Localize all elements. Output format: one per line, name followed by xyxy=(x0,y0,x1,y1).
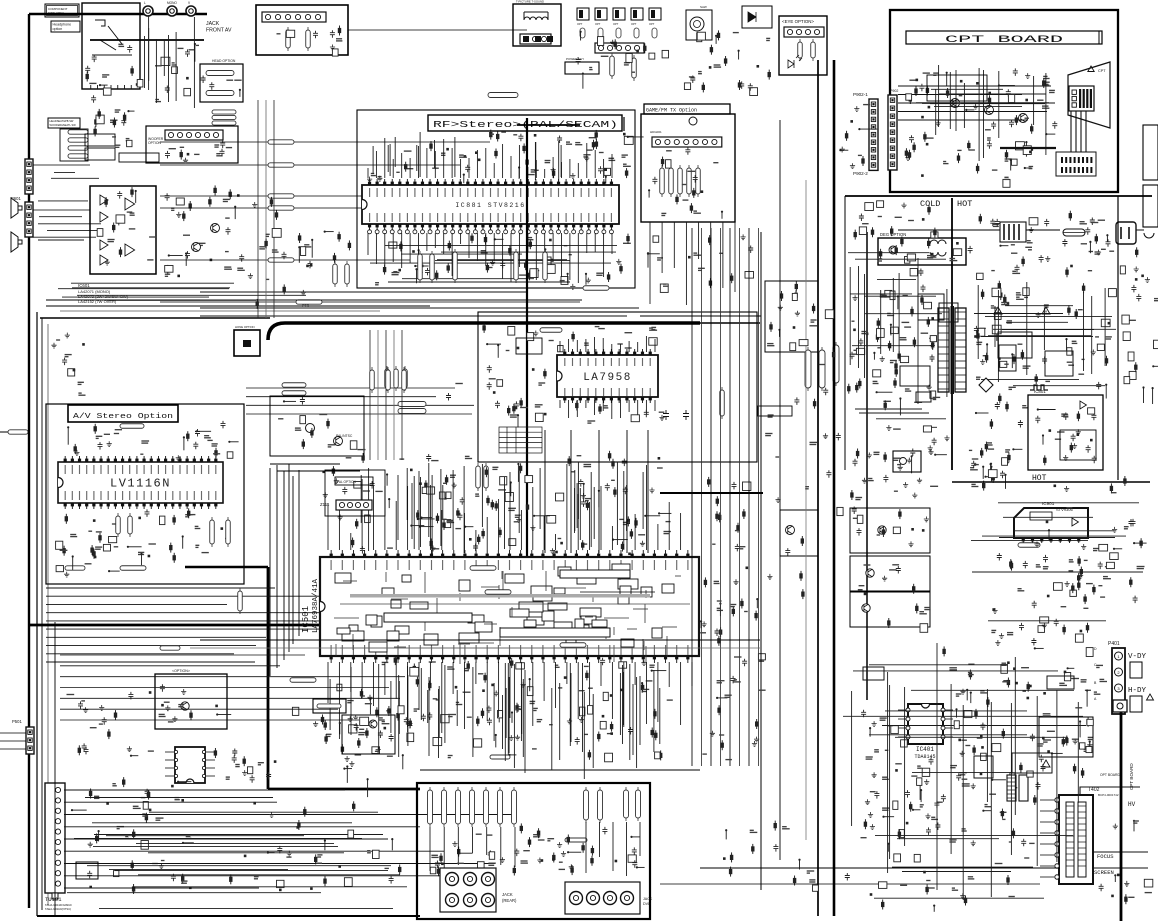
wire p501 a xyxy=(0,732,26,734)
svg-text:L: L xyxy=(144,1,146,5)
transistor mute xyxy=(369,720,377,728)
wire main vertical bus xyxy=(526,118,528,645)
resistor signal 5 xyxy=(268,258,294,262)
PAL NTSC box xyxy=(270,396,364,456)
photodiode eye xyxy=(788,55,802,68)
centre rail strip parts xyxy=(836,433,841,441)
resistor key 2 xyxy=(485,590,511,595)
headphone jack pins xyxy=(90,85,92,89)
audio option label box xyxy=(48,118,80,128)
IC801 sub box xyxy=(1060,430,1096,460)
resistor R372 xyxy=(370,370,375,390)
resistor jack b2 xyxy=(598,790,603,820)
IC881 lower cross wires xyxy=(402,278,534,280)
wire bottom right long xyxy=(700,867,1060,869)
wire mid bus right xyxy=(700,322,760,324)
wire to main xyxy=(348,29,527,31)
wire cross 1 xyxy=(640,315,761,317)
LV1116N top pins xyxy=(64,456,66,462)
relay box xyxy=(1143,185,1158,227)
right edge parts xyxy=(1129,319,1136,321)
primary wires xyxy=(864,295,936,297)
IC881 top components xyxy=(463,175,465,184)
svg-text:OPT BOARD: OPT BOARD xyxy=(1100,773,1120,777)
wire av 3 xyxy=(273,100,275,318)
wire rail gray xyxy=(805,180,807,840)
op-amp IC601c xyxy=(100,240,108,250)
component side label box xyxy=(45,4,79,17)
svg-text:OPT: OPT xyxy=(595,22,601,26)
resistor xyxy=(68,146,88,150)
connector P902 cpt xyxy=(888,95,897,170)
cpt drive wires xyxy=(931,88,1003,90)
v-hold box xyxy=(850,556,930,591)
svg-text:GAME/FM TX Option: GAME/FM TX Option xyxy=(646,108,697,114)
mute circuit box xyxy=(342,715,395,754)
IC501 bottom components xyxy=(509,735,514,740)
wire crt socket drops xyxy=(1070,111,1072,152)
transistor Q602 xyxy=(192,243,201,252)
speaker SP601 xyxy=(11,198,22,218)
IC881 bottom pin wires xyxy=(367,233,369,255)
LA7958 left parts xyxy=(532,368,535,371)
LV1116N bottom pin labels xyxy=(64,491,66,500)
svg-text:HOT: HOT xyxy=(957,199,972,209)
bottom left parts xyxy=(108,729,110,739)
connector block P101 xyxy=(256,5,348,55)
resistor R304 xyxy=(394,369,399,388)
IC401 pins xyxy=(906,708,910,712)
resistor signal 1 xyxy=(268,140,294,144)
headphone jack switch xyxy=(92,20,132,55)
wire CRT board drop xyxy=(1120,712,1123,921)
wire av 2 xyxy=(265,100,267,318)
wire left vertical bus xyxy=(28,14,30,908)
LA7958 bottom pin stubs xyxy=(559,400,561,408)
secondary vwires xyxy=(1043,308,1045,350)
feedback parts xyxy=(976,412,989,414)
IC501 internal bus xyxy=(350,594,650,598)
diode D101 xyxy=(748,12,756,22)
wire ic501 left bundle 3 xyxy=(283,471,285,660)
EW correction parts xyxy=(1087,719,1093,725)
wire bus elbow xyxy=(185,566,268,568)
wire p501 c xyxy=(0,748,26,750)
svg-text:SCREEN: SCREEN xyxy=(1094,869,1114,876)
wire long 770 xyxy=(420,769,700,771)
wire bundle centre 2 xyxy=(701,228,703,766)
wire cross 3 xyxy=(580,591,655,593)
h-out parts xyxy=(956,773,961,781)
Z111 option box xyxy=(325,470,385,516)
resistor signal 6 xyxy=(296,300,322,304)
svg-text:H-DY: H-DY xyxy=(1128,687,1147,695)
RF stereo section box xyxy=(357,110,635,288)
right of RF parts xyxy=(653,236,659,242)
wire ic501 left bundle 1 xyxy=(269,468,271,676)
resistor R807 xyxy=(632,58,637,78)
IC601 internals xyxy=(113,223,115,233)
switch box xyxy=(85,134,115,146)
connector eye xyxy=(784,27,824,37)
wire ic501 left bundle 2 xyxy=(276,465,278,668)
svg-text:BCP4-0001742: BCP4-0001742 xyxy=(1098,793,1119,797)
switch box 2 xyxy=(85,148,115,160)
transistor video amp R xyxy=(951,99,960,108)
resistor R302 xyxy=(282,391,306,396)
svg-text:WOOFER&SEATL SW: WOOFER&SEATL SW xyxy=(50,123,77,127)
IC801 parts xyxy=(1063,413,1068,421)
wire rail A xyxy=(760,232,762,890)
jack feed wires xyxy=(592,694,594,768)
resistor R301 xyxy=(282,383,306,388)
wire bundle centre 8 xyxy=(758,228,760,766)
CPT BOARD outer box xyxy=(890,10,1118,192)
ceramic filter CF881 xyxy=(689,117,697,125)
svg-text:IC901: IC901 xyxy=(1042,501,1055,506)
op-amp IC901 STV9306 block xyxy=(1014,508,1088,538)
power top parts xyxy=(872,227,874,237)
op-amp LA7958 xyxy=(557,355,658,397)
warning triangle psu2 xyxy=(994,307,1002,314)
east parts xyxy=(1072,583,1074,593)
fuse F801 xyxy=(1063,229,1085,236)
LV1116N top parts xyxy=(96,435,103,437)
connector game xyxy=(652,137,722,147)
resistor R806 xyxy=(610,56,615,76)
east wires xyxy=(971,540,1088,542)
op-amp IC881 STV8216 xyxy=(362,185,619,224)
AV stereo label box xyxy=(68,405,178,422)
IC881 top pin labels xyxy=(369,188,371,197)
IC501 top pin wires xyxy=(504,477,506,549)
resistor stereo out xyxy=(120,566,146,571)
wire long 648 gray xyxy=(190,647,760,649)
resistor V out 2 xyxy=(398,409,426,414)
svg-text:LA76938A/41A: LA76938A/41A xyxy=(312,578,320,633)
pad xyxy=(523,36,529,42)
svg-text:TDA8145: TDA8145 xyxy=(914,754,935,760)
svg-text:P902: P902 xyxy=(890,89,898,93)
RCA jack grid rear xyxy=(440,868,496,912)
resistor out audio xyxy=(317,704,341,708)
svg-text:(REAR): (REAR) xyxy=(502,898,517,903)
game option parts xyxy=(721,212,723,219)
mid-right strip parts xyxy=(743,482,751,491)
wire chroma 5 xyxy=(401,330,403,460)
resistor option 1 xyxy=(580,28,585,38)
op-amp IC601 block xyxy=(90,186,156,274)
transistor Q902 xyxy=(866,569,874,577)
connector cpt top xyxy=(1113,700,1127,712)
audio right parts xyxy=(325,231,334,233)
wire fan left-mid xyxy=(46,587,275,589)
amp box 1 xyxy=(850,508,930,553)
wire fan bottom left xyxy=(60,654,305,656)
resistor game 5 xyxy=(696,168,701,194)
IC401 right parts xyxy=(1002,729,1004,739)
wire power left rail xyxy=(844,196,846,470)
bottom-right v wires xyxy=(950,684,952,854)
h-out snubber parts xyxy=(949,839,956,841)
wire jack ground bus xyxy=(90,39,204,41)
CRT socket xyxy=(1069,86,1094,111)
svg-text:PTR: PTR xyxy=(302,304,310,308)
IC501 internal function blocks xyxy=(459,580,470,591)
resistor signal 2 xyxy=(268,163,294,167)
headphone drive parts xyxy=(94,126,96,136)
capacitor C445 xyxy=(683,410,689,420)
connector heater grid xyxy=(1056,152,1096,176)
wire bundle centre 1 xyxy=(691,228,693,766)
wire audio signal 5 xyxy=(160,259,410,261)
resistor AUDIO out xyxy=(488,93,518,98)
resistor jack c2 xyxy=(636,790,641,818)
wire bundle top b xyxy=(277,470,360,472)
wire bottom-left rail xyxy=(54,622,56,916)
stereo left parts xyxy=(88,530,92,532)
HEAD OPTION box xyxy=(200,64,243,102)
wire bundle centre 4 xyxy=(720,228,722,766)
wire vert la7958-5 xyxy=(647,430,649,553)
T402 pins xyxy=(1055,798,1059,802)
resistor R885 xyxy=(543,252,548,280)
posistor box xyxy=(1143,125,1158,180)
cpt board lower parts xyxy=(943,161,946,163)
svg-text:P902-2: P902-2 xyxy=(853,171,868,176)
svg-text:OPT: OPT xyxy=(649,22,655,26)
resistor jack 6 xyxy=(498,790,503,824)
resistor option 5 xyxy=(652,28,657,38)
AV stereo option outer box xyxy=(46,404,244,584)
connector P902-1 xyxy=(869,99,878,170)
connector Z111 xyxy=(336,500,372,510)
wire rail D xyxy=(833,60,836,916)
EYE OPTION box xyxy=(779,16,827,75)
transistor Q901 xyxy=(878,526,886,534)
IF input parts xyxy=(766,37,770,39)
IC501 top pin stubs xyxy=(327,503,329,550)
below IC501 parts left xyxy=(339,723,341,734)
LA7958 top pin labels xyxy=(564,358,566,366)
connector P101 pins xyxy=(262,12,326,22)
jack wires left xyxy=(429,827,431,871)
EEPROM IC01 xyxy=(175,747,205,783)
photocoupler LED xyxy=(900,458,907,465)
op-amp error amp xyxy=(1080,401,1086,409)
wire ic501 left bundle 6 xyxy=(298,470,300,636)
CPT BOARD title box xyxy=(906,31,1102,44)
secondary sub boxes xyxy=(999,345,1016,371)
option box parts xyxy=(178,704,183,706)
table sync modes xyxy=(499,427,542,453)
wire left rail 2 xyxy=(41,318,43,910)
secondary wires xyxy=(988,335,1091,337)
wire cold hot divider xyxy=(951,198,953,470)
xtal box X01 xyxy=(76,862,98,879)
wire bundle top a xyxy=(270,463,340,465)
wire cpt gnd xyxy=(898,229,1060,231)
connector P601 lower xyxy=(25,202,33,237)
wire audio gnd gray xyxy=(60,310,380,312)
transistor Q301 xyxy=(334,437,343,446)
svg-text:HEAD OPTION: HEAD OPTION xyxy=(212,59,236,63)
mid small parts xyxy=(310,264,313,267)
wire thick audio bus xyxy=(268,323,700,340)
resistor R901 xyxy=(1018,543,1040,548)
LA7958 top parts xyxy=(483,323,485,333)
svg-text:HEADSEAT&PB SW: HEADSEAT&PB SW xyxy=(50,119,74,123)
option jumper box 1 xyxy=(577,8,589,20)
resistor jack 5 xyxy=(484,790,489,824)
IC501 bottom pin wires xyxy=(438,689,440,758)
P902 wire labels xyxy=(858,154,862,156)
wire bundle centre 5 xyxy=(729,228,731,766)
op-amp IC601d xyxy=(100,255,108,265)
IC881 bottom pin labels xyxy=(369,213,371,222)
POWER KEY box xyxy=(565,62,599,74)
connector P806 xyxy=(595,43,644,53)
svg-text:LV1116N: LV1116N xyxy=(110,477,171,491)
connector P501 xyxy=(26,727,34,754)
wire vert la7958-1 xyxy=(544,430,546,553)
IC501 top components xyxy=(516,517,521,522)
svg-text:<EYE OPTION>: <EYE OPTION> xyxy=(782,19,814,24)
svg-text:A/V Stereo Option: A/V Stereo Option xyxy=(73,413,173,421)
CRT electron gun xyxy=(1068,62,1110,128)
resistor signal 3 xyxy=(268,194,294,198)
resistor game 1 xyxy=(660,168,665,194)
capacitor C444 xyxy=(663,410,669,420)
LA7958 top pins xyxy=(564,349,566,355)
line filter LF801 xyxy=(1000,222,1026,242)
resistor jack 3 xyxy=(456,790,461,824)
audio bus wires xyxy=(107,299,256,301)
mute block box xyxy=(119,153,159,162)
bottom centre-left parts xyxy=(244,855,247,858)
resistor fusible 2 xyxy=(819,350,825,388)
IC02 parts xyxy=(795,311,800,316)
h-drive parts xyxy=(1043,739,1051,741)
transistor degauss xyxy=(889,246,897,254)
speaker SP602 xyxy=(11,232,22,252)
svg-text:V-DY: V-DY xyxy=(1128,653,1147,661)
IC501 bottom pins xyxy=(330,656,332,663)
resistor on wire xyxy=(160,646,180,650)
svg-text:IC401: IC401 xyxy=(916,746,934,753)
bottom-right sub boxes xyxy=(1012,753,1052,773)
resistor R883 xyxy=(453,252,458,280)
woofer option parts xyxy=(165,151,170,159)
svg-text:TAEA-G011D(NTSC): TAEA-G011D(NTSC) xyxy=(45,907,71,911)
resistor key 4 xyxy=(290,678,316,683)
GAME FM TX option box xyxy=(641,114,735,222)
resistor R305 xyxy=(403,369,408,388)
sound trap box xyxy=(686,10,712,40)
LA7958 top pin stubs xyxy=(559,341,561,352)
LA7958 bottom pin labels xyxy=(564,388,566,396)
vertical out parts xyxy=(1063,625,1065,635)
wire chroma 4 xyxy=(393,330,395,460)
wire audio bus lower thick xyxy=(29,567,430,789)
wire fan stereo to V xyxy=(246,387,455,389)
transformer T401 drive xyxy=(1007,775,1016,801)
deg option parts xyxy=(953,249,961,256)
transistor video amp G xyxy=(985,106,994,115)
svg-text:TU101: TU101 xyxy=(45,896,62,903)
svg-text:option: option xyxy=(53,27,63,31)
svg-text:PAL/NTSC: PAL/NTSC xyxy=(336,434,353,438)
transformer T101 box xyxy=(513,4,561,46)
resistor key 3 xyxy=(560,643,586,648)
wire HV xyxy=(1080,787,1140,795)
svg-text:LA7958: LA7958 xyxy=(583,372,632,384)
PAL OPTION label box xyxy=(335,477,373,485)
P101 parts xyxy=(330,45,335,50)
wire rail B xyxy=(779,120,781,860)
resistor R443 xyxy=(476,466,481,488)
primary sub boxes xyxy=(916,392,931,402)
resistor R884 xyxy=(514,252,519,280)
resistor R303 xyxy=(385,369,390,388)
resistor R374 xyxy=(402,370,407,390)
svg-text:CPT BOARD: CPT BOARD xyxy=(945,35,1063,46)
AC inlet plug xyxy=(1116,222,1136,244)
wire left rail 3 xyxy=(47,324,49,905)
AC input parts xyxy=(1044,219,1049,227)
head option parts xyxy=(209,82,214,90)
V-DY coil box xyxy=(1130,662,1142,678)
cpt bias box xyxy=(927,75,987,101)
svg-text:IC881 STV8216: IC881 STV8216 xyxy=(455,202,525,209)
LV1116N bottom parts xyxy=(138,551,144,553)
resistor game 3 xyxy=(678,168,683,194)
wire audio signal 4 xyxy=(160,207,580,209)
resistor key 1 xyxy=(470,566,496,571)
headphone jack block xyxy=(82,3,140,89)
transformer T402 flyback xyxy=(1059,795,1093,884)
secondary parts xyxy=(979,327,985,329)
svg-text:P902-1: P902-1 xyxy=(853,92,868,97)
wire fan below RF xyxy=(200,291,526,293)
svg-text:T-PICTURE T-SOUND: T-PICTURE T-SOUND xyxy=(516,0,544,4)
resistor option 4 xyxy=(634,28,639,38)
wire power top rail xyxy=(845,195,1152,197)
wire mid bus left xyxy=(40,317,270,319)
svg-text:FOCUS: FOCUS xyxy=(1097,853,1114,860)
resistor R881 xyxy=(418,254,423,280)
wire audio L bus xyxy=(46,299,455,301)
pal ntsc parts xyxy=(319,414,327,416)
tuner TU101 xyxy=(45,783,65,893)
op-amp LV1116N xyxy=(58,462,223,503)
LV1116N bottom pins xyxy=(64,503,66,509)
transistor audio mute xyxy=(211,224,220,233)
resistor FRONT V xyxy=(212,110,236,114)
IC501 bottom pin labels xyxy=(330,645,332,655)
IC881 bottom components xyxy=(564,245,568,247)
connector P601 upper xyxy=(25,159,33,194)
H-DY coil box xyxy=(1130,696,1142,712)
resistor FRONT L xyxy=(212,115,236,119)
op-amp IC601a xyxy=(100,195,108,205)
wire bundle centre 6 xyxy=(739,228,741,766)
resistor R1104 xyxy=(226,520,231,544)
resistor R1101 xyxy=(116,516,121,534)
IC881 top wires xyxy=(534,142,536,180)
resistor fusible 3 xyxy=(833,345,839,383)
wire vert la7958-3 xyxy=(598,430,600,553)
